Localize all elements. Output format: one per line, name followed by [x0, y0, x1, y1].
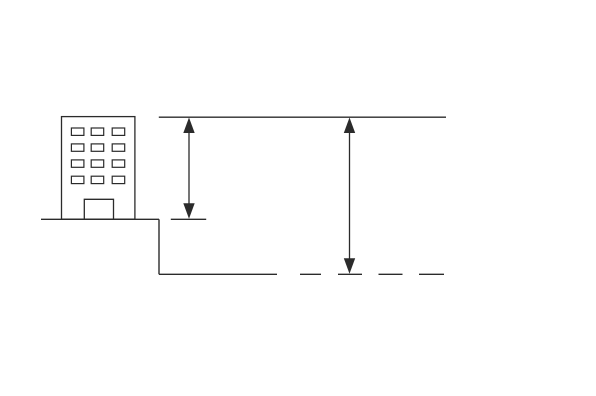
window row3 col3 [112, 160, 125, 167]
window row4 col3 [112, 176, 125, 183]
window row3 col1 [71, 160, 84, 167]
lower line dash 1 [300, 273, 321, 275]
window row4 col1 [71, 176, 84, 183]
lower line dash 4 [419, 273, 444, 275]
lower line dash 3 [379, 273, 403, 275]
step wire (vertical drop) [158, 219, 160, 274]
window row2 col2 [91, 144, 104, 151]
door [84, 199, 113, 219]
window row1 col3 [112, 128, 125, 135]
top water level line [159, 116, 446, 118]
short measurement tick [171, 218, 206, 220]
lower line dash 2 [338, 273, 362, 275]
window row1 col1 [71, 128, 84, 135]
short arrow bottom head [183, 203, 194, 219]
tall arrow top head [344, 118, 355, 134]
tall arrow shaft [349, 122, 351, 269]
tall arrow bottom head [344, 258, 355, 274]
ground line [41, 218, 159, 220]
building outline [62, 117, 135, 220]
short arrow top head [183, 118, 194, 134]
window row4 col2 [91, 176, 104, 183]
window row1 col2 [91, 128, 104, 135]
lower line solid segment [159, 273, 277, 275]
window row3 col2 [91, 160, 104, 167]
short arrow shaft [188, 122, 190, 214]
window row2 col1 [71, 144, 84, 151]
window row2 col3 [112, 144, 125, 151]
